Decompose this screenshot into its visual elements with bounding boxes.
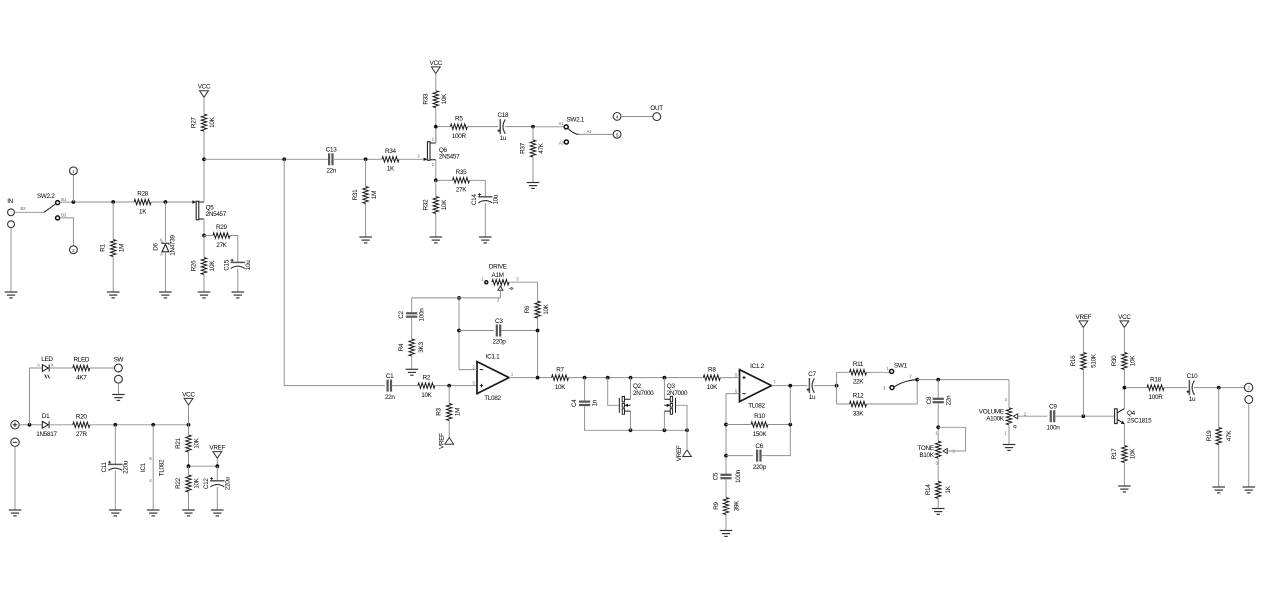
svg-text:A100K: A100K bbox=[986, 416, 1005, 423]
svg-text:10K: 10K bbox=[209, 260, 216, 271]
svg-text:R37: R37 bbox=[520, 142, 527, 154]
svg-text:C8: C8 bbox=[926, 396, 933, 404]
wire terminal 1 down bbox=[72, 175, 74, 202]
resistor R29 27K bbox=[213, 224, 230, 249]
svg-text:10K: 10K bbox=[555, 384, 566, 391]
resistor R14 1K bbox=[925, 481, 952, 498]
svg-text:D1: D1 bbox=[42, 413, 50, 420]
svg-text:B10K: B10K bbox=[919, 452, 934, 459]
wire pivot to VOLUME bbox=[917, 379, 1009, 381]
resistor R12 33K bbox=[850, 393, 867, 418]
ground under power jack bbox=[9, 510, 22, 516]
svg-text:1u: 1u bbox=[809, 394, 816, 401]
wire to R28 bbox=[115, 201, 134, 203]
ground under SW bbox=[112, 395, 125, 401]
wire through R21 bbox=[188, 425, 190, 466]
input jack IN sleeve bbox=[8, 221, 15, 228]
junction wiper node bbox=[457, 296, 461, 300]
svg-text:IC1.2: IC1.2 bbox=[750, 363, 764, 370]
svg-text:10u: 10u bbox=[493, 194, 500, 204]
svg-text:SW2.2: SW2.2 bbox=[37, 193, 55, 200]
svg-text:VCC: VCC bbox=[430, 60, 443, 67]
junction Q3 gate VREF bbox=[685, 428, 689, 432]
polarized capacitor C12 220u bbox=[203, 477, 231, 491]
wire R7 to R8 bbox=[569, 377, 704, 379]
junction Q6 source node bbox=[434, 178, 438, 182]
wire R6 to output node bbox=[537, 318, 539, 378]
wire source to R29 bbox=[204, 235, 213, 237]
wire feedback column bbox=[458, 298, 460, 370]
resistor R10 150K bbox=[751, 413, 768, 438]
resistor R30 10K bbox=[1111, 353, 1137, 370]
wire arm to terminal 5 bbox=[579, 133, 614, 135]
svg-text:10K: 10K bbox=[209, 116, 216, 127]
svg-text:22n: 22n bbox=[326, 168, 336, 175]
wire node to R16 bbox=[1082, 370, 1084, 417]
wire terminal 4 to OUT bbox=[621, 116, 653, 118]
junction Q3 source bbox=[663, 428, 667, 432]
svg-text:VCC: VCC bbox=[182, 391, 195, 398]
svg-text:K: K bbox=[51, 363, 54, 368]
svg-text:C3: C3 bbox=[495, 318, 503, 325]
wire Q4 collector bbox=[1123, 388, 1125, 409]
resistor R28 1K bbox=[134, 191, 151, 216]
svg-text:R21: R21 bbox=[175, 437, 182, 449]
junction SW1 pivot bbox=[915, 378, 919, 382]
capacitor C1 22n bbox=[385, 373, 395, 401]
svg-text:22n: 22n bbox=[385, 394, 395, 401]
svg-text:510K: 510K bbox=[1090, 353, 1097, 368]
wire R10 row bbox=[726, 424, 790, 426]
svg-text:R16: R16 bbox=[1070, 355, 1077, 367]
svg-text:R30: R30 bbox=[1111, 355, 1118, 367]
svg-text:R5: R5 bbox=[455, 115, 463, 122]
wire node to Q4 base bbox=[1085, 415, 1114, 417]
svg-text:Q3: Q3 bbox=[667, 383, 676, 390]
capacitor C2 100n bbox=[398, 308, 426, 322]
svg-text:10K: 10K bbox=[1130, 355, 1137, 366]
svg-text:5: 5 bbox=[616, 132, 619, 137]
junction C3 right node bbox=[536, 329, 540, 333]
svg-text:C2: C2 bbox=[398, 310, 405, 318]
ground under C11 bbox=[109, 510, 122, 516]
wire TONE to R14 bbox=[937, 458, 939, 481]
wire R18 to C10 bbox=[1164, 387, 1187, 389]
resistor R11 22K bbox=[850, 361, 867, 386]
svg-text:22n: 22n bbox=[946, 395, 953, 405]
ground under R14 bbox=[932, 509, 945, 515]
svg-text:Q4: Q4 bbox=[1127, 410, 1136, 417]
switch SW1 contact bottom bbox=[890, 386, 894, 390]
ground under R17 bbox=[1118, 486, 1131, 492]
switch SW1 arm bbox=[894, 380, 916, 387]
junction output tap bbox=[788, 384, 792, 388]
svg-text:220u: 220u bbox=[123, 460, 130, 474]
svg-text:TONE: TONE bbox=[917, 445, 933, 452]
svg-text:C7: C7 bbox=[808, 371, 816, 378]
junction LED riser bbox=[28, 423, 32, 427]
svg-text:C15: C15 bbox=[224, 259, 231, 271]
junction R31 tap bbox=[364, 157, 368, 161]
wire C18 to R37 node bbox=[505, 126, 533, 128]
transistor Q5 2N5457 JFET bbox=[192, 200, 226, 220]
junction C8 tap bbox=[936, 378, 940, 382]
svg-text:IN: IN bbox=[7, 198, 13, 205]
svg-text:VREF: VREF bbox=[1076, 314, 1092, 321]
wire feedback to output bbox=[789, 386, 791, 425]
svg-text:150K: 150K bbox=[753, 431, 768, 438]
wire through R31 bbox=[365, 159, 367, 237]
power symbol VCC above R27 bbox=[200, 91, 209, 98]
junction VREF divider bbox=[187, 464, 191, 468]
svg-text:10K: 10K bbox=[707, 384, 718, 391]
svg-text:10K: 10K bbox=[421, 392, 432, 399]
polarized capacitor C18 1u bbox=[497, 112, 509, 142]
svg-text:1K: 1K bbox=[945, 485, 952, 493]
svg-text:VREF: VREF bbox=[209, 445, 225, 452]
capacitor C6 220p bbox=[753, 443, 767, 471]
switch SW2.2 contact B3 bbox=[56, 216, 60, 220]
svg-text:TL082: TL082 bbox=[159, 459, 166, 476]
zener diode D6 1N4739 bbox=[153, 235, 177, 257]
wire Q3 drain bbox=[663, 378, 665, 400]
wire node to C12 bbox=[216, 466, 218, 481]
wire Q2 source bbox=[630, 411, 632, 430]
wire C9 to node bbox=[1056, 415, 1084, 417]
resistor R1 1M bbox=[100, 240, 126, 257]
svg-text:B1: B1 bbox=[61, 197, 67, 202]
wire node to C3 bbox=[459, 330, 494, 332]
junction Q2 source bbox=[629, 428, 633, 432]
svg-text:100n: 100n bbox=[735, 469, 742, 483]
wire C6 to R10 right bbox=[762, 425, 791, 456]
op-amp IC1.1 TL082 bbox=[473, 353, 514, 402]
polarized capacitor C10 1u bbox=[1187, 373, 1199, 403]
svg-text:VCC: VCC bbox=[198, 84, 211, 91]
svg-text:C14: C14 bbox=[471, 194, 478, 206]
switch SW1 contact top bbox=[890, 369, 894, 373]
wire to C6 bbox=[726, 455, 753, 457]
wire drain rail to C13 bbox=[204, 158, 328, 160]
terminal circle 5 bbox=[613, 130, 621, 138]
wire RLED to SW bbox=[90, 367, 115, 369]
svg-text:TL082: TL082 bbox=[484, 395, 501, 402]
svg-text:22K: 22K bbox=[853, 379, 864, 386]
wire to C2 bbox=[411, 298, 413, 312]
wire R14 to ground bbox=[937, 498, 939, 508]
wire R17 to ground bbox=[1123, 463, 1125, 487]
resistor R17 10K bbox=[1111, 446, 1137, 463]
LED indicator diode bbox=[37, 356, 54, 378]
svg-text:A: A bbox=[160, 251, 163, 256]
wire pin6 feedback column bbox=[726, 394, 740, 474]
resistor R27 10K bbox=[191, 114, 217, 131]
wire collector to R18 bbox=[1126, 387, 1147, 389]
wire node to SW2.1 bbox=[535, 126, 564, 128]
power symbol VREF above R16 bbox=[1079, 321, 1088, 328]
resistor R16 510K bbox=[1070, 353, 1097, 370]
wire jack tip to SW2.2 pivot bbox=[14, 211, 44, 213]
transistor Q2 2N7000 MOSFET bbox=[619, 383, 654, 414]
resistor R2 10K bbox=[418, 374, 435, 399]
svg-text:R26: R26 bbox=[191, 260, 198, 272]
wire Q6 source down bbox=[435, 160, 437, 181]
svg-text:10K: 10K bbox=[543, 303, 550, 314]
junction Q2 gate tap bbox=[606, 376, 610, 380]
wire jack sleeve to ground bbox=[10, 228, 12, 292]
junction C6 left bbox=[724, 454, 728, 458]
wire jack sleeve to ground bbox=[1248, 403, 1250, 487]
svg-text:2N7000: 2N7000 bbox=[667, 390, 688, 397]
svg-text:2N5457: 2N5457 bbox=[206, 211, 227, 218]
output jack tip bbox=[1244, 383, 1252, 391]
wire C15 to ground bbox=[237, 269, 239, 292]
wire to C8 bbox=[937, 380, 939, 398]
capacitor C8 22n bbox=[926, 395, 953, 405]
svg-text:VCC: VCC bbox=[1118, 314, 1131, 321]
svg-text:100R: 100R bbox=[452, 133, 467, 140]
polarized capacitor C15 10u bbox=[224, 259, 252, 271]
potentiometer TONE B10K bbox=[917, 430, 955, 465]
wire Q5 drain up bbox=[203, 159, 205, 202]
ground under C15 bbox=[232, 292, 245, 298]
ground under VOLUME bbox=[1003, 445, 1016, 451]
wire C13 to node bbox=[334, 158, 366, 160]
capacitor C13 22n bbox=[326, 147, 338, 175]
svg-text:R20: R20 bbox=[76, 414, 88, 421]
svg-text:C13: C13 bbox=[326, 147, 338, 154]
svg-text:SW: SW bbox=[114, 357, 124, 364]
resistor R3 1M bbox=[436, 404, 462, 421]
svg-text:27K: 27K bbox=[456, 187, 467, 194]
svg-text:10K: 10K bbox=[194, 437, 201, 448]
ground under R26 bbox=[198, 292, 211, 298]
wire R35 to C14 bbox=[470, 180, 486, 197]
wire VCC R33 to drain bbox=[435, 74, 437, 144]
svg-text:1N4739: 1N4739 bbox=[170, 235, 177, 256]
svg-text:TL082: TL082 bbox=[748, 402, 765, 409]
wire R29 to C15 bbox=[230, 236, 238, 263]
junction riser to C1 bbox=[282, 157, 286, 161]
ground under R1 bbox=[107, 292, 120, 298]
wire R12 to pivot bbox=[837, 382, 918, 405]
junction D6 tap bbox=[164, 200, 168, 204]
wire through R3 bbox=[448, 386, 450, 438]
power jack negative terminal bbox=[11, 438, 19, 446]
wire down to C11 bbox=[114, 425, 116, 465]
transistor Q4 2SC1815 NPN bbox=[1115, 409, 1153, 425]
svg-text:R8: R8 bbox=[708, 366, 716, 373]
resistor R32 10K bbox=[422, 197, 448, 214]
svg-text:R3: R3 bbox=[436, 407, 443, 415]
transistor Q6 2N5457 JFET bbox=[417, 137, 460, 167]
wire through D6 bbox=[164, 202, 166, 292]
svg-text:1M: 1M bbox=[454, 408, 461, 416]
switch SW terminal A bbox=[115, 364, 123, 372]
terminal circle 2 bbox=[70, 246, 78, 254]
svg-text:47K: 47K bbox=[1226, 430, 1233, 441]
wire node to R1 top bbox=[75, 201, 113, 203]
wire IC1.1 output bbox=[509, 377, 552, 379]
switch SW2.2 contact B1 bbox=[56, 201, 60, 205]
svg-text:1: 1 bbox=[72, 169, 75, 174]
resistor R34 1K bbox=[382, 148, 399, 173]
ground under R9 bbox=[720, 531, 733, 537]
svg-text:1u: 1u bbox=[500, 135, 507, 142]
polarized capacitor C7 1u bbox=[807, 371, 817, 401]
svg-text:1u: 1u bbox=[1189, 396, 1196, 403]
svg-text:10K: 10K bbox=[441, 199, 448, 210]
ground under R31 bbox=[359, 237, 372, 243]
svg-text:1M: 1M bbox=[118, 244, 125, 252]
wire split column bbox=[836, 372, 838, 404]
wire R4 to ground bbox=[411, 356, 413, 369]
wire through R19 bbox=[1218, 388, 1220, 487]
op-amp IC1.2 TL082 bbox=[735, 363, 776, 409]
wire source to R35 bbox=[438, 179, 453, 181]
wire wiper line left bbox=[412, 297, 459, 299]
resistor RLED 4K7 bbox=[73, 357, 90, 382]
svg-text:C11: C11 bbox=[101, 462, 108, 473]
junction Q2 drain tap bbox=[629, 376, 633, 380]
resistor R31 1M bbox=[352, 187, 378, 204]
svg-text:C5: C5 bbox=[712, 472, 719, 480]
svg-text:C10: C10 bbox=[1187, 373, 1199, 380]
svg-text:1N5817: 1N5817 bbox=[36, 431, 57, 438]
wire node to R34 bbox=[368, 158, 382, 160]
polarized capacitor C11 220u bbox=[101, 460, 129, 474]
resistor R21 10K bbox=[175, 435, 201, 452]
wire C14 to ground bbox=[484, 203, 486, 237]
svg-text:R11: R11 bbox=[853, 361, 864, 368]
wire DRIVE cw terminal to R6 bbox=[509, 282, 538, 301]
terminal circle 4 bbox=[613, 113, 621, 121]
power symbol VCC above R30 bbox=[1120, 321, 1129, 328]
resistor R6 10K bbox=[524, 301, 550, 318]
power symbol VREF under R3 bbox=[445, 438, 454, 445]
svg-text:R33: R33 bbox=[422, 93, 429, 105]
junction Q6 drain node bbox=[434, 125, 438, 129]
svg-text:R32: R32 bbox=[422, 199, 429, 211]
svg-text:R19: R19 bbox=[1206, 430, 1213, 442]
svg-text:C6: C6 bbox=[755, 443, 763, 450]
wire through R32 bbox=[435, 180, 437, 237]
wire wiper line bbox=[459, 297, 500, 299]
resistor R26 10K bbox=[191, 258, 217, 275]
svg-text:R9: R9 bbox=[713, 501, 720, 509]
svg-text:1K: 1K bbox=[387, 166, 395, 173]
wire R20 to VCC rail bbox=[90, 424, 189, 426]
svg-text:1n: 1n bbox=[591, 399, 598, 406]
capacitor C5 100n bbox=[712, 469, 742, 483]
wire LED to RLED bbox=[49, 367, 73, 369]
wire R22 to ground bbox=[188, 466, 190, 510]
switch SW2.1 contact A1 bbox=[564, 125, 568, 129]
ground under R37 bbox=[527, 183, 540, 189]
wire C1 to R2 bbox=[392, 385, 418, 387]
svg-text:A: A bbox=[37, 363, 40, 368]
ground under output jack bbox=[1243, 487, 1256, 493]
capacitor C3 220p bbox=[493, 318, 507, 346]
svg-text:2SC1815: 2SC1815 bbox=[1127, 417, 1152, 424]
svg-text:D6: D6 bbox=[153, 242, 160, 250]
junction VCC feed bbox=[187, 423, 191, 427]
wire inverting input bbox=[459, 369, 477, 371]
svg-text:4: 4 bbox=[616, 115, 619, 120]
switch SW2.1 arm bbox=[568, 128, 579, 134]
svg-text:27R: 27R bbox=[76, 431, 87, 438]
svg-text:RLED: RLED bbox=[73, 357, 89, 364]
svg-text:33K: 33K bbox=[853, 410, 864, 417]
svg-text:A1M: A1M bbox=[492, 272, 504, 279]
wire Q6 drain up bbox=[435, 127, 437, 143]
svg-text:R6: R6 bbox=[524, 305, 531, 313]
wire VCC R30 collector bbox=[1123, 328, 1125, 388]
svg-text:100n: 100n bbox=[1047, 424, 1061, 431]
output pad OUT bbox=[653, 113, 661, 121]
wire C3 to right node bbox=[502, 330, 538, 332]
svg-text:R14: R14 bbox=[925, 484, 932, 496]
svg-text:47K: 47K bbox=[538, 142, 545, 153]
ground under R4 bbox=[406, 369, 419, 375]
junction Q5 drain node bbox=[202, 157, 206, 161]
wire rail to VOLUME top bbox=[1008, 380, 1010, 408]
wire riser to LED bbox=[30, 368, 43, 425]
svg-text:Q2: Q2 bbox=[633, 383, 642, 390]
wire node to output jack bbox=[1221, 387, 1245, 389]
wire long riser to C1 bbox=[284, 159, 385, 385]
svg-text:10K: 10K bbox=[194, 477, 201, 488]
wire Q3 gate to VREF rail bbox=[676, 405, 688, 430]
svg-text:SW2.1: SW2.1 bbox=[567, 117, 585, 124]
junction Q5 source node bbox=[202, 234, 206, 238]
wire Q3 source bbox=[663, 411, 665, 430]
switch SW2.2 arm bbox=[44, 204, 56, 212]
wire TONE wiper loop bbox=[938, 427, 965, 451]
svg-text:C18: C18 bbox=[498, 112, 510, 119]
svg-text:R12: R12 bbox=[853, 393, 865, 400]
junction gate node / terminal 1 bbox=[72, 200, 76, 204]
ground under IC1 pin 4 bbox=[147, 510, 160, 516]
wire Q2 drain bbox=[630, 378, 632, 400]
resistor R35 27K bbox=[453, 169, 470, 194]
wire C8 to TONE bbox=[937, 404, 939, 442]
wire VCC to rail bbox=[188, 405, 190, 425]
wire C11 to ground bbox=[114, 471, 116, 510]
junction C4 tap bbox=[583, 376, 587, 380]
junction R1 top bbox=[111, 200, 115, 204]
ground under R19 bbox=[1212, 487, 1225, 493]
resistor R7 10K bbox=[552, 366, 569, 391]
svg-text:B2: B2 bbox=[21, 206, 27, 211]
svg-text:VOLUME: VOLUME bbox=[979, 409, 1004, 416]
junction output feedback bbox=[536, 376, 540, 380]
wire D1 to R20 bbox=[49, 424, 73, 426]
wire DRIVE wiper down bbox=[499, 290, 501, 298]
svg-text:2N5457: 2N5457 bbox=[439, 154, 460, 161]
wire through R26 bbox=[203, 236, 205, 293]
svg-text:R7: R7 bbox=[556, 366, 564, 373]
potentiometer VOLUME A100K bbox=[979, 397, 1027, 435]
svg-text:10u: 10u bbox=[245, 260, 252, 270]
IC1 TL082 power pins bbox=[140, 425, 166, 510]
switch SW2.1 contact A3 bbox=[564, 140, 568, 144]
junction R10 left bbox=[724, 423, 728, 427]
power symbol VCC source bbox=[184, 398, 193, 405]
svg-text:K: K bbox=[160, 238, 163, 243]
svg-text:OUT: OUT bbox=[650, 105, 663, 112]
svg-text:100n: 100n bbox=[419, 308, 426, 322]
